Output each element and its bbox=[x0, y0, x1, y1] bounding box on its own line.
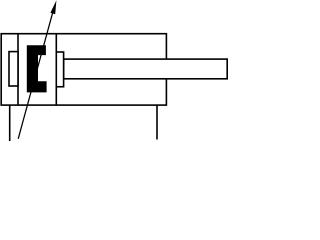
pneumatic cylinder schematic bbox=[0, 0, 231, 144]
end cap inner port cavity rect bbox=[9, 52, 18, 86]
end cap partition line bbox=[17, 34, 19, 105]
adjustability arrow shaft bbox=[18, 12, 53, 139]
port line left bbox=[9, 105, 11, 141]
cylinder barrel body bbox=[1, 34, 166, 105]
piston face line bbox=[55, 34, 57, 105]
arrowhead bbox=[50, 0, 56, 14]
piston rod bbox=[64, 59, 228, 79]
cushioning sleeve bracket (black) bbox=[27, 45, 47, 92]
piston plate rect bbox=[56, 52, 63, 87]
port line right bbox=[156, 105, 158, 139]
